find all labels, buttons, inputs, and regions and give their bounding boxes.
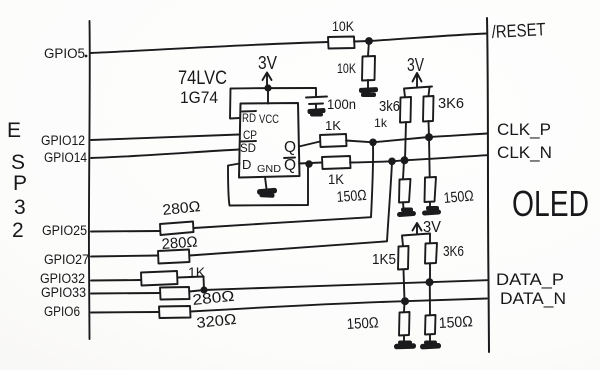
svg-text:150Ω: 150Ω — [346, 314, 379, 333]
node: GPIO32/GPIO33 merge — [200, 286, 207, 293]
svg-text:2: 2 — [12, 219, 24, 242]
capacitor C1 100n — [306, 89, 327, 110]
svg-text:1G74: 1G74 — [180, 88, 218, 107]
svg-text:150Ω: 150Ω — [443, 187, 474, 207]
svg-text:GPIO25: GPIO25 — [42, 223, 87, 238]
wire: GPIO32 to 1K — [91, 279, 141, 282]
wire: Qbar to 1K — [299, 163, 322, 164]
svg-text:1k: 1k — [374, 116, 388, 130]
svg-text:1K: 1K — [188, 264, 206, 280]
op-amp U1 74LVC1G74 flip-flop body — [239, 103, 300, 178]
resistor 150R CLK_N termination (vertical) — [399, 179, 411, 203]
wire: GND pin to ground — [265, 177, 267, 189]
svg-text:Q: Q — [284, 157, 296, 174]
node: /RESET junction — [365, 37, 373, 45]
wire: OLED module left-edge vertical — [487, 18, 489, 352]
power: 3V arrow for CLK bias — [413, 73, 422, 87]
svg-text:CLK_N: CLK_N — [497, 143, 552, 162]
wire: 10K to ground — [367, 80, 369, 88]
svg-text:150Ω: 150Ω — [336, 187, 367, 206]
pin RD overline — [242, 110, 256, 113]
node: CLK_P / 3K6 junction — [425, 133, 433, 141]
node: DATA_P / 3K6 junction — [426, 278, 434, 286]
resistor 150R DATA_N termination (vertical) — [399, 312, 410, 336]
wire: 150R to ground — [403, 336, 405, 342]
wire: RD pin loop to VCC rail — [230, 88, 316, 119]
wire: ESP32 module right-edge vertical — [88, 21, 91, 339]
wire: 3k6 down to CLK_N node — [405, 122, 406, 160]
svg-text:100n: 100n — [327, 96, 356, 112]
wire: 3V tee to 1K5 / 3K6 — [402, 234, 430, 247]
wire: /RESET net to OLED — [354, 34, 487, 42]
svg-text:CP: CP — [243, 128, 257, 142]
svg-text:3K6: 3K6 — [438, 95, 464, 112]
resistor 1K GPIO32 (horizontal) — [141, 271, 178, 286]
svg-text:10K: 10K — [337, 60, 356, 76]
resistor 150R CLK_P termination (vertical) — [425, 177, 437, 202]
svg-text:3k6: 3k6 — [379, 98, 400, 115]
wire: 3K6 down to CLK_P node — [428, 121, 431, 137]
svg-text:DATA_P: DATA_P — [496, 270, 564, 289]
svg-text:CLK_P: CLK_P — [497, 120, 551, 139]
wire: 150R to ground — [429, 335, 431, 342]
svg-text:/RESET: /RESET — [491, 19, 546, 42]
resistor 3K6 pull-up DATA_P (vertical) — [425, 243, 437, 264]
wire: GPIO6 to 320R — [91, 311, 159, 314]
wire: CLK_N net to OLED — [350, 155, 487, 162]
node: CLK_N / 3k6 junction — [401, 156, 409, 164]
wire: junction to 10K pull-down — [368, 41, 369, 56]
node: CLK_P / GPIO25 junction — [369, 139, 377, 147]
ground: below 100n — [307, 108, 325, 117]
node: GPIO5 label period — [85, 55, 88, 58]
wire: 150R to ground — [429, 202, 431, 206]
node: 3V / VCC junction — [264, 84, 271, 91]
resistor 150R DATA_P termination (vertical) — [425, 315, 436, 335]
svg-text:280Ω: 280Ω — [161, 234, 198, 253]
ground: below IC GND pin — [257, 188, 277, 198]
resistor 280R GPIO33 (horizontal) — [160, 287, 190, 300]
wire: CLK_P net to OLED — [346, 134, 487, 143]
wire: DATA_P net to OLED — [190, 280, 488, 291]
pin SD overline — [241, 140, 256, 143]
resistor 1K5 pull-up DATA_N (vertical) — [398, 246, 409, 270]
resistor 3k6 pull-up CLK_N (vertical) — [400, 97, 411, 123]
svg-text:1K5: 1K5 — [372, 251, 396, 268]
ground: below CLK_P 150R — [422, 206, 441, 216]
ground: below 10K pull-down — [359, 87, 378, 97]
svg-text:3K6: 3K6 — [443, 243, 464, 260]
svg-text:OLED: OLED — [512, 183, 589, 224]
wire: GPIO33 to 280R — [91, 292, 160, 295]
resistor 320R GPIO6 (horizontal) — [159, 306, 191, 318]
svg-text:RD: RD — [242, 111, 256, 125]
svg-text:GND: GND — [257, 164, 281, 175]
svg-text:280Ω: 280Ω — [162, 198, 202, 219]
svg-text:GPIO12: GPIO12 — [41, 133, 85, 148]
resistor 280R GPIO27 (horizontal) — [158, 250, 190, 264]
resistor 1K CLK_N series — [322, 156, 351, 169]
wire: GPIO12 to CP pin — [91, 135, 239, 141]
svg-text:SD: SD — [240, 141, 256, 155]
wire: 150R to ground — [402, 203, 405, 209]
wire: CLK_P node down crossing CLK_N to 150R — [428, 138, 431, 178]
wire: VCC stub from 3V node into IC — [267, 88, 269, 104]
svg-text:10K: 10K — [332, 18, 355, 34]
svg-text:1K: 1K — [328, 171, 345, 187]
svg-text:D: D — [242, 157, 251, 172]
svg-text:GPIO5: GPIO5 — [44, 46, 85, 61]
resistor 1k CLK_P series — [320, 134, 347, 147]
svg-text:3: 3 — [14, 196, 26, 219]
wire: 3K6 down to DATA_P node — [429, 264, 431, 283]
svg-text:150Ω: 150Ω — [438, 313, 473, 332]
wire: 1K5 down to DATA_N node — [404, 270, 405, 302]
svg-text:74LVC: 74LVC — [178, 68, 227, 89]
svg-text:VCC: VCC — [259, 112, 279, 126]
node: CLK_N / GPIO27 junction — [388, 158, 396, 166]
wire: CLK_N node down to 150R — [403, 161, 404, 180]
svg-text:GPIO32: GPIO32 — [40, 271, 85, 286]
wire: D pin feedback loop to Qbar — [228, 164, 308, 206]
svg-text:GPIO6: GPIO6 — [44, 304, 80, 319]
resistor 3K6 pull-up CLK_P (vertical) — [423, 96, 434, 122]
svg-text:3V: 3V — [407, 55, 424, 75]
svg-text:1K: 1K — [325, 118, 341, 133]
wire: GPIO5 to 10K — [91, 42, 328, 53]
wire: 3V tee to 3k6 pair — [404, 87, 432, 98]
power: 3V arrow above IC — [263, 73, 272, 88]
wire: 1K output down to GPIO33 node — [178, 277, 205, 290]
svg-text:GPIO27: GPIO27 — [44, 252, 89, 267]
wire: DATA_P node down crossing DATA_N to 150R — [429, 283, 431, 316]
svg-text:E: E — [7, 119, 21, 142]
node: Qbar / D feedback junction — [305, 160, 312, 167]
wire: GPIO25 to 280R — [91, 230, 160, 233]
wire: GPIO25 net rise to CLK_P node — [194, 143, 373, 228]
svg-text:DATA_N: DATA_N — [500, 289, 566, 308]
wire: DATA_N net to OLED — [191, 299, 488, 312]
wire: Q pin to 1k — [299, 142, 320, 147]
resistor 10K pull-down (vertical) — [362, 56, 375, 81]
svg-text:P: P — [13, 172, 27, 195]
ground: below DATA_P 150R — [420, 341, 441, 350]
pin Qbar overline — [284, 157, 295, 160]
node: DATA_N / 1K5 junction — [401, 297, 409, 305]
svg-text:GPIO33: GPIO33 — [41, 285, 86, 300]
power: 3V arrow for DATA bias — [413, 223, 422, 234]
svg-text:Q: Q — [284, 139, 296, 156]
svg-text:3V: 3V — [258, 53, 277, 73]
ground: below CLK_N 150R — [397, 208, 416, 218]
svg-text:280Ω: 280Ω — [192, 288, 236, 309]
wire: GPIO27 to 280R — [91, 256, 158, 257]
wire: GPIO27 net rise to CLK_N node — [190, 162, 393, 256]
resistor 280R GPIO25 (horizontal) — [160, 222, 194, 236]
svg-text:GPIO14: GPIO14 — [44, 150, 87, 165]
wire: GPIO14 to SD pin — [91, 150, 239, 159]
svg-text:320Ω: 320Ω — [196, 311, 238, 332]
wire: DATA_N node down to 150R — [403, 302, 406, 313]
ground: below DATA_N 150R — [394, 341, 416, 350]
svg-text:3V: 3V — [423, 219, 441, 236]
svg-text:S: S — [11, 151, 25, 174]
resistor 10K series (horizontal) — [328, 37, 355, 49]
